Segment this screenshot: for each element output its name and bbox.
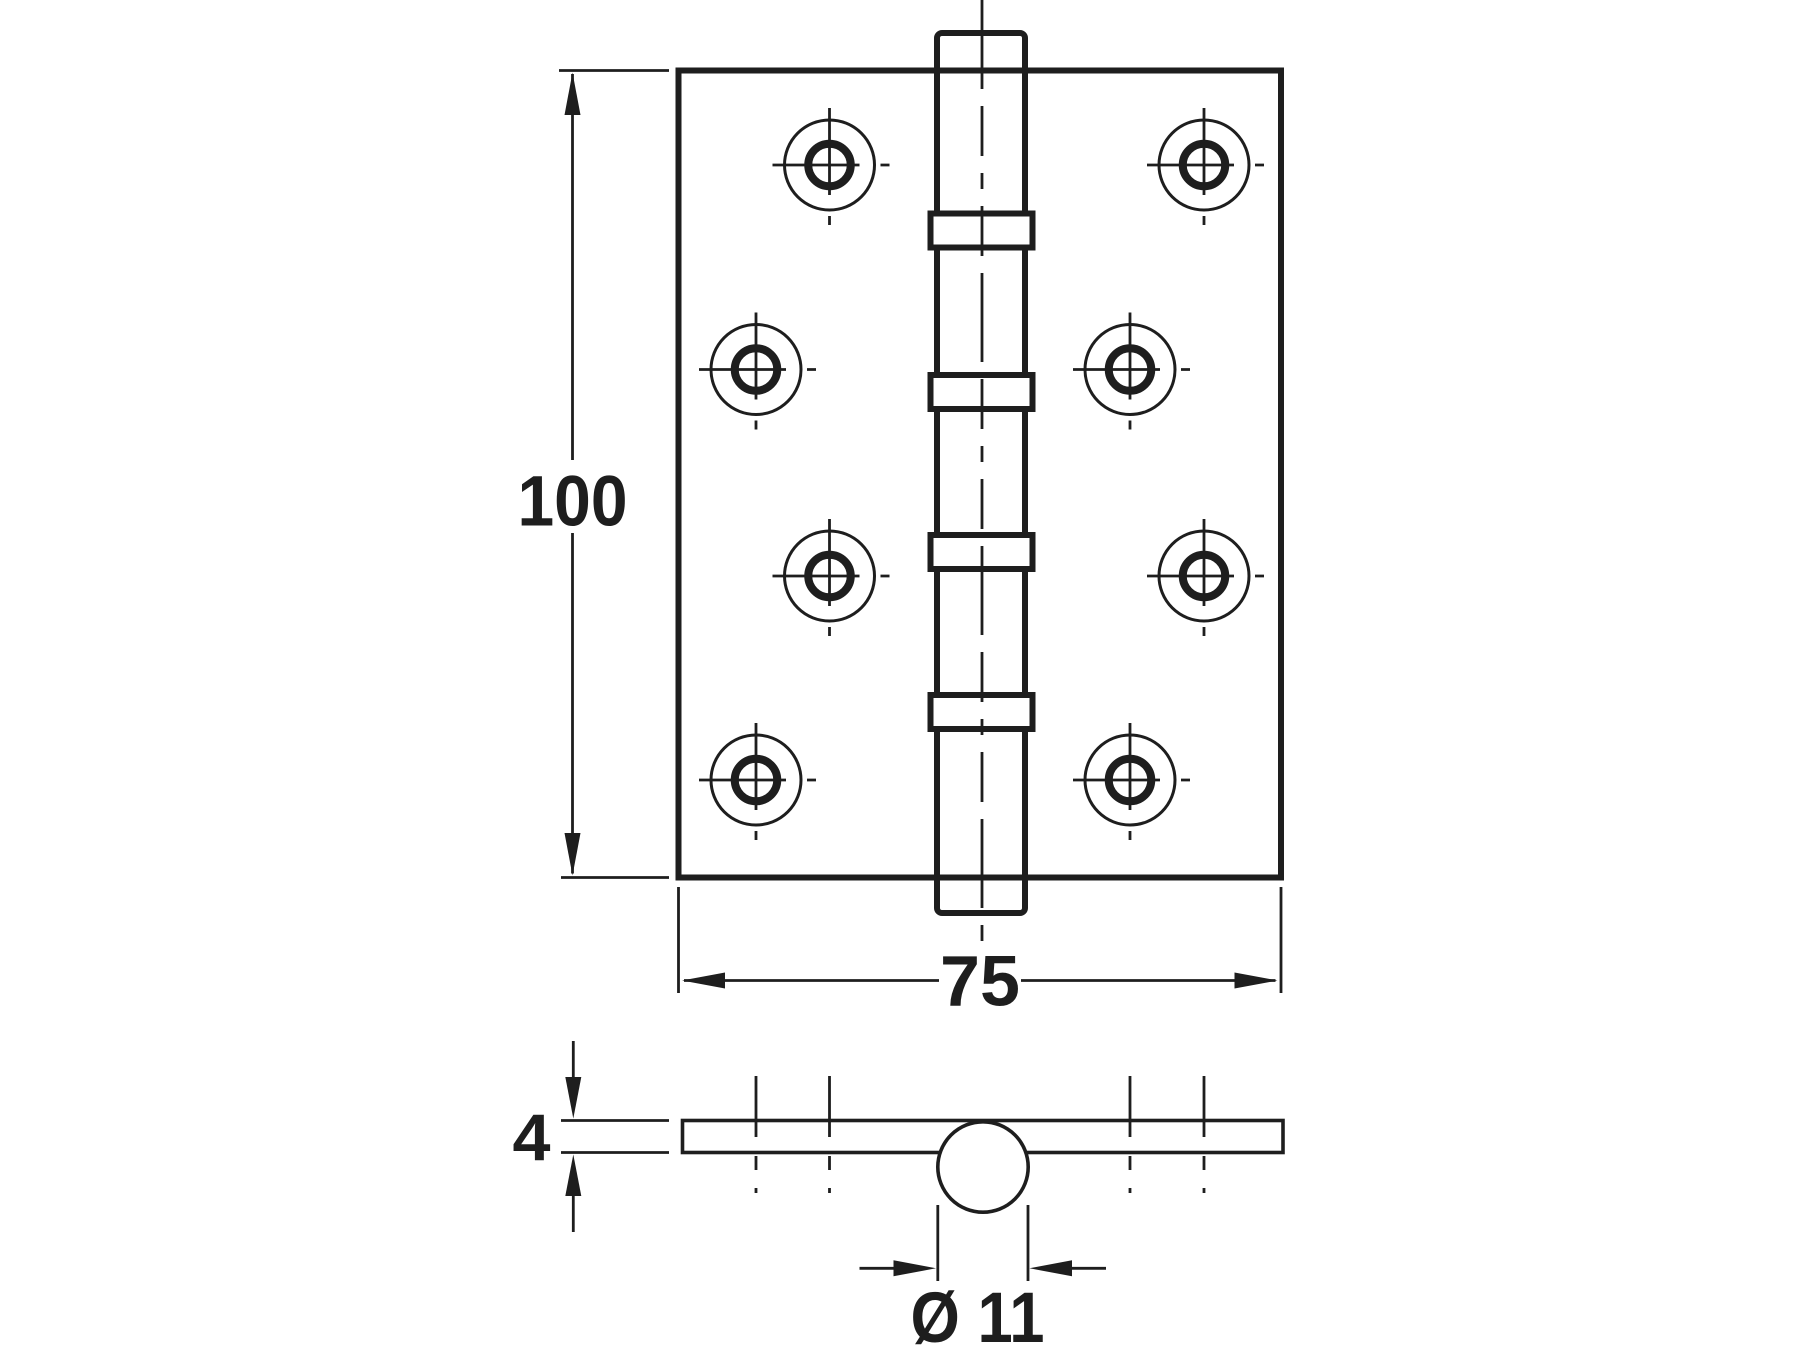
screw hole r2-left centerlines	[699, 313, 816, 430]
dim 75 left arrowhead	[682, 973, 725, 989]
dim 100 bottom arrowhead	[565, 833, 581, 876]
side view leaf bar	[683, 1121, 1284, 1153]
screw hole r4-right outer circle	[1085, 735, 1175, 825]
dim 100 top arrowhead	[565, 73, 581, 116]
screw hole r1-right outer circle	[1159, 120, 1249, 210]
screw hole r4-left inner ring	[735, 759, 778, 802]
screw hole r3-right centerlines	[1147, 519, 1264, 636]
dim d11 left arrow line	[860, 1267, 895, 1270]
dim 75 right arrowhead	[1235, 973, 1278, 989]
screw hole r3-right outer circle	[1159, 531, 1249, 621]
dim 100 dimension line	[571, 74, 574, 874]
dim d11 left extension line	[936, 1205, 939, 1281]
screw hole r1-left outer circle	[785, 120, 875, 210]
screw hole r1-right inner ring	[1183, 144, 1226, 187]
dim 4 lower arrow line	[572, 1196, 575, 1232]
dim 4 upper arrow line	[572, 1041, 575, 1078]
dim d11 right arrowhead	[1030, 1260, 1073, 1276]
svg-text:75: 75	[940, 943, 1020, 1022]
screw hole r2-right centerlines	[1073, 313, 1190, 430]
screw hole r2-left outer circle	[711, 325, 801, 415]
side view hole centerline 1	[755, 1076, 758, 1193]
screw hole r4-left outer circle	[711, 735, 801, 825]
dim 75 dimension line	[684, 979, 1276, 982]
dim 4 lower arrowhead	[565, 1155, 581, 1197]
screw hole r1-left inner ring	[808, 144, 851, 187]
knuckle collar 1	[931, 214, 1033, 248]
knuckle collar 3	[931, 535, 1033, 569]
screw hole r4-right inner ring	[1109, 759, 1152, 802]
side view hole centerline 3	[1129, 1076, 1132, 1193]
hinge plate (front view 75x100)	[679, 71, 1282, 878]
svg-text:Ø 11: Ø 11	[911, 1279, 1045, 1350]
dim d11 left arrowhead	[894, 1260, 937, 1276]
dim 100 bottom extension tick	[561, 876, 669, 879]
screw hole r2-right inner ring	[1109, 348, 1152, 391]
pin centerline (dash-dot)	[981, 0, 984, 941]
dim 75 right extension line	[1280, 887, 1283, 993]
knuckle collar 2	[931, 375, 1033, 409]
screw hole r1-right centerlines	[1147, 108, 1264, 225]
dim 75 left extension line	[677, 887, 680, 993]
svg-text:100: 100	[518, 463, 628, 542]
screw hole r3-left inner ring	[808, 555, 851, 598]
side view hole centerline 2	[828, 1076, 831, 1193]
svg-text:4: 4	[513, 1100, 551, 1174]
screw hole r4-right centerlines	[1073, 723, 1190, 840]
dim d11 right arrow line	[1072, 1267, 1106, 1270]
screw hole r3-right inner ring	[1183, 555, 1226, 598]
screw hole r4-left centerlines	[699, 723, 816, 840]
dim 4 upper arrowhead	[565, 1077, 581, 1119]
side view hole centerline 4	[1203, 1076, 1206, 1193]
screw hole r1-left centerlines	[773, 108, 890, 225]
screw hole r3-left outer circle	[785, 531, 875, 621]
dim 4 top extension line	[561, 1119, 669, 1122]
dim 4 bottom extension line	[561, 1151, 669, 1154]
screw hole r2-right outer circle	[1085, 325, 1175, 415]
screw hole r3-left centerlines	[773, 519, 890, 636]
dim 100 top extension tick	[559, 69, 669, 72]
dim d11 right extension line	[1027, 1205, 1030, 1281]
side view barrel circle	[938, 1122, 1028, 1212]
screw hole r2-left inner ring	[735, 348, 778, 391]
knuckle collar 4	[931, 695, 1033, 729]
hinge pin / knuckle barrel	[937, 33, 1025, 913]
